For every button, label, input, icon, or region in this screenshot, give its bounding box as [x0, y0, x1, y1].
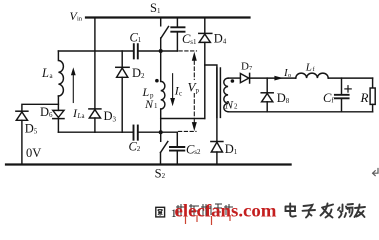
caption watermark elecfans.com — [175, 201, 277, 221]
inductor Lp primary winding N1 — [161, 51, 165, 132]
svg-text:2: 2 — [234, 103, 238, 111]
svg-text:D: D — [132, 66, 141, 80]
polarity dot secondary — [231, 79, 235, 83]
paragraph mark — [373, 169, 378, 176]
svg-text:1: 1 — [234, 148, 238, 156]
svg-text:D: D — [241, 61, 249, 73]
wire D4 to D1 branch — [205, 65, 217, 142]
label D6 — [40, 105, 53, 119]
diode D2 — [116, 67, 129, 132]
svg-text:D: D — [104, 109, 113, 123]
svg-text:2: 2 — [141, 72, 145, 80]
switch S1 — [161, 18, 169, 52]
label N1 — [144, 97, 158, 111]
caption red drips — [186, 215, 231, 225]
caption hidden black text strokes — [176, 204, 233, 216]
capacitor C1 — [134, 44, 138, 58]
svg-text:7: 7 — [249, 65, 253, 72]
svg-text:D: D — [214, 32, 223, 46]
svg-text:elecfans.com: elecfans.com — [175, 201, 277, 221]
wire C2 to node B and corner to Cs2 — [139, 132, 178, 146]
svg-text:N: N — [144, 97, 154, 111]
capacitor Cs2 — [170, 147, 184, 165]
svg-text:2: 2 — [137, 145, 141, 153]
label Cf plus sign — [345, 86, 351, 92]
wire La to D6 — [57, 96, 59, 110]
wire top Vin rail — [86, 16, 250, 18]
svg-text:S: S — [155, 166, 162, 180]
diode D1 — [211, 142, 223, 165]
wire Lf to output corner — [328, 77, 372, 79]
node B junction dot — [159, 130, 163, 134]
svg-text:S: S — [150, 1, 157, 15]
svg-text:N: N — [224, 98, 234, 112]
caption number 1 — [171, 206, 177, 220]
inductor Lf — [296, 73, 328, 78]
wire D8 branch — [266, 78, 268, 93]
diode D5 — [16, 111, 28, 164]
wire W1 from La to C1 — [58, 50, 133, 52]
wire primary bottom tie — [161, 118, 205, 120]
svg-text:a: a — [82, 113, 85, 120]
inductor La — [58, 51, 63, 96]
label Lf — [305, 61, 316, 73]
wire secondary top to D7 — [228, 77, 240, 79]
current arrow Ic — [170, 74, 175, 107]
svg-text:s1: s1 — [190, 38, 197, 46]
svg-text:R: R — [360, 90, 369, 105]
inductor secondary winding N2 — [224, 78, 228, 112]
wire C1 to node A — [139, 50, 161, 52]
wire dashed Vp bottom reference — [179, 130, 197, 132]
svg-text:1: 1 — [157, 7, 161, 15]
switch S2 — [161, 132, 168, 164]
diode D8 — [261, 93, 273, 112]
diode D6 — [53, 110, 64, 132]
label Cs2 — [186, 142, 201, 156]
svg-text:6: 6 — [49, 111, 53, 119]
wire W2 bottom distribution left — [58, 131, 132, 133]
resistor R — [370, 78, 375, 112]
label Cf — [323, 91, 334, 105]
label ILa — [72, 106, 85, 120]
svg-text:D: D — [25, 121, 34, 135]
label Ic — [174, 83, 182, 97]
label C1 — [130, 31, 142, 45]
svg-text:f: f — [313, 66, 316, 73]
polarity dot primary — [155, 79, 159, 83]
svg-text:a: a — [50, 72, 54, 80]
label Io — [283, 67, 291, 79]
node 0V label — [26, 146, 41, 160]
label Cs1 — [182, 32, 197, 46]
node A junction dot — [159, 49, 163, 53]
diode D7 — [240, 73, 249, 83]
label Vp — [188, 80, 200, 95]
wire output bottom — [228, 111, 373, 113]
svg-text:in: in — [77, 16, 83, 23]
svg-text:D: D — [277, 91, 286, 105]
voltage arrow Vp dashed double-head — [192, 52, 197, 131]
wire D7 to Lf — [250, 77, 296, 79]
node Vin label — [70, 9, 83, 23]
caption watermark 电子发烧友 — [286, 204, 366, 218]
svg-text:0V: 0V — [26, 146, 41, 160]
label S1 — [150, 1, 161, 15]
svg-text:8: 8 — [286, 97, 290, 105]
current arrow Io — [274, 76, 283, 81]
svg-text:3: 3 — [113, 116, 117, 124]
wire 0V bottom rail — [6, 163, 291, 165]
wire dashed Vp top reference — [179, 50, 197, 52]
svg-text:4: 4 — [223, 38, 227, 46]
capacitor C2 — [134, 126, 138, 140]
label N2 — [224, 98, 238, 112]
label La — [41, 66, 54, 80]
label D4 — [214, 32, 227, 46]
label D5 — [25, 121, 38, 135]
label C2 — [129, 140, 141, 154]
label D8 — [277, 91, 290, 105]
svg-text:L: L — [305, 61, 312, 73]
wire D3 branch vertical from top rail — [94, 18, 96, 109]
svg-text:p: p — [196, 87, 200, 95]
svg-text:D: D — [40, 105, 49, 119]
capacitor Cf — [335, 78, 349, 112]
label D2 — [132, 66, 145, 80]
current arrow ILa — [71, 67, 76, 102]
wire node A to Cs1 leg — [161, 50, 178, 52]
svg-text:D: D — [225, 142, 234, 156]
diode D3 — [89, 109, 101, 132]
label S2 — [155, 166, 166, 180]
capacitor Cs1 — [171, 18, 184, 52]
wire D2 branch from W1 — [121, 51, 123, 67]
caption figure glyph 图 — [156, 207, 165, 217]
label D3 — [104, 109, 117, 124]
wire D5 horizontal link — [22, 104, 59, 111]
label R — [360, 90, 369, 105]
svg-text:f: f — [331, 97, 334, 105]
label D7 — [241, 61, 253, 73]
svg-text:1: 1 — [138, 36, 142, 44]
svg-text:c: c — [179, 90, 182, 97]
diode D4 — [199, 18, 212, 119]
svg-text:2: 2 — [162, 172, 166, 180]
svg-text:o: o — [288, 72, 291, 79]
transformer core — [217, 68, 221, 117]
svg-text:1: 1 — [154, 102, 158, 110]
svg-text:s2: s2 — [194, 148, 201, 156]
svg-text:5: 5 — [34, 128, 38, 136]
label D1 — [225, 142, 238, 156]
label Lp — [142, 85, 155, 99]
svg-text:L: L — [41, 66, 49, 80]
